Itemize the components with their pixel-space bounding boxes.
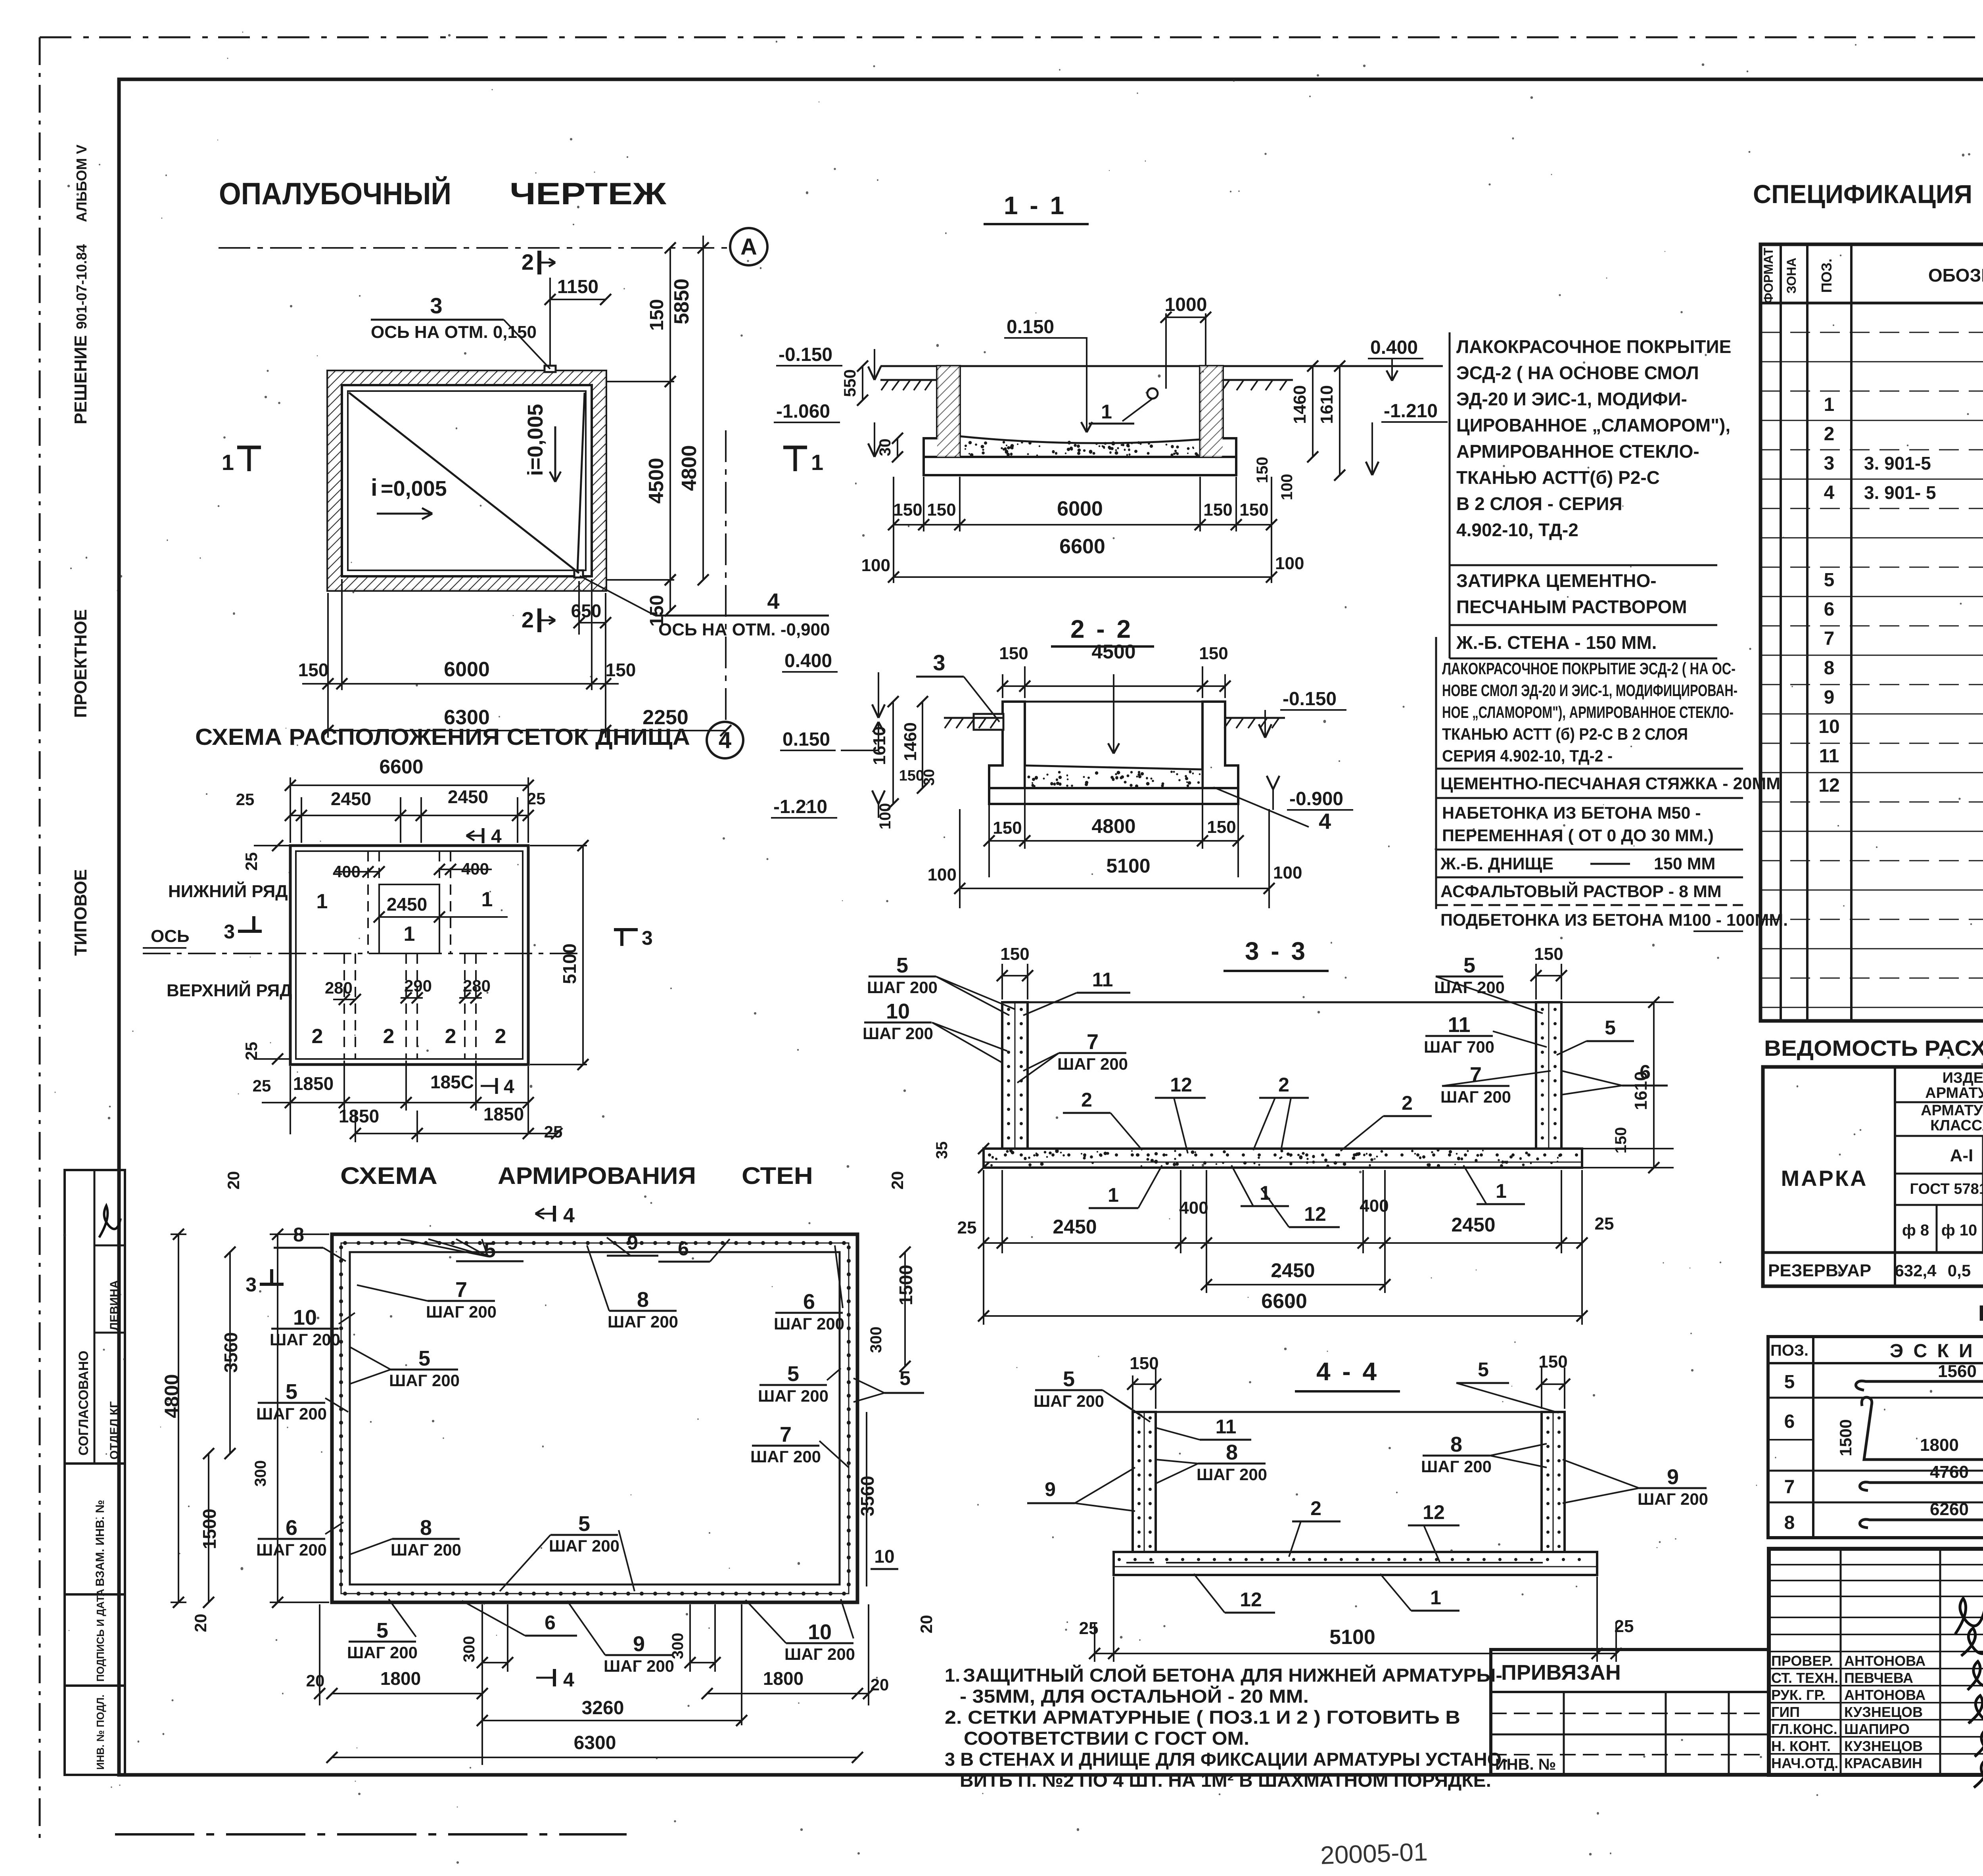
section 3-3 bottom dim 6600	[984, 1315, 1582, 1317]
svg-text:7: 7	[1824, 628, 1835, 649]
plan axis 4 vertical line	[725, 430, 727, 721]
svg-text:1000: 1000	[1165, 294, 1207, 315]
svg-text:6: 6	[803, 1290, 815, 1314]
svg-text:6260: 6260	[1930, 1500, 1969, 1519]
coating text block 1 rule 3	[1450, 658, 1717, 660]
svg-text:5: 5	[418, 1347, 430, 1370]
section 2-2 footing	[989, 788, 1238, 804]
svg-text:150: 150	[927, 500, 956, 520]
svg-text:АЛЬБОМ V: АЛЬБОМ V	[73, 145, 90, 222]
wall reinforcement dots left	[339, 1245, 343, 1586]
svg-text:2: 2	[1824, 424, 1835, 445]
svg-text:ОСЬ НА ОТМ. 0,150: ОСЬ НА ОТМ. 0,150	[371, 322, 537, 342]
plan section mark 2 top	[537, 251, 541, 274]
plan section mark 1T left	[237, 446, 261, 449]
svg-text:ШАГ 200: ШАГ 200	[774, 1314, 844, 1333]
svg-text:Э С К И З: Э С К И З	[1890, 1341, 1983, 1362]
svg-text:25: 25	[1615, 1617, 1634, 1636]
svg-text:300: 300	[252, 1460, 269, 1487]
svg-text:100: 100	[1278, 474, 1296, 501]
svg-text:150: 150	[1538, 1352, 1567, 1372]
svg-text:ПЕВЧЕВА: ПЕВЧЕВА	[1844, 1670, 1913, 1686]
plan right vertical dims 150 4500 150	[606, 381, 674, 382]
svg-text:4800: 4800	[678, 445, 701, 491]
armir left dims	[270, 1233, 329, 1235]
svg-text:ЗОНА: ЗОНА	[1784, 258, 1799, 294]
svg-text:КУЗНЕЦОВ: КУЗНЕЦОВ	[1844, 1704, 1923, 1720]
svg-text:1: 1	[222, 450, 234, 475]
wall reinforcement rect outer	[332, 1234, 857, 1602]
svg-text:ШАГ 200: ШАГ 200	[270, 1330, 340, 1349]
svg-text:ОСЬ НА ОТМ. -0,900: ОСЬ НА ОТМ. -0,900	[658, 620, 830, 639]
svg-text:КУЗНЕЦОВ: КУЗНЕЦОВ	[1844, 1738, 1923, 1754]
section 2-2 right wall	[1202, 702, 1238, 788]
sketch poz8	[1860, 1513, 1983, 1528]
section 1-1 wall hatch right	[1200, 366, 1223, 457]
svg-text:- 35ММ, ДЛЯ ОСТАЛЬНОЙ - 20: - 35ММ, ДЛЯ ОСТАЛЬНОЙ - 20 ММ.	[960, 1686, 1309, 1707]
svg-text:2450: 2450	[1451, 1214, 1495, 1236]
coating text block 2 rule4	[1436, 877, 1743, 879]
svg-text:650: 650	[571, 600, 602, 621]
svg-text:ШАГ 200: ШАГ 200	[1440, 1088, 1511, 1106]
details table left frame	[1768, 1337, 1983, 1538]
svg-text:9: 9	[1667, 1465, 1679, 1489]
svg-text:3: 3	[1824, 453, 1835, 474]
svg-text:АНТОНОВА: АНТОНОВА	[1844, 1653, 1925, 1669]
svg-text:ШАГ 200: ШАГ 200	[389, 1371, 460, 1390]
svg-text:0.150: 0.150	[1007, 317, 1054, 338]
svg-text:СТЕН: СТЕН	[742, 1162, 813, 1189]
section 2-2 left wall	[989, 702, 1025, 788]
svg-text:ОТДЕЛ КГ: ОТДЕЛ КГ	[108, 1401, 121, 1460]
svg-text:ШАГ 200: ШАГ 200	[863, 1024, 933, 1043]
svg-text:ПОЗ.: ПОЗ.	[1818, 259, 1835, 293]
svg-text:ШАГ 200: ШАГ 200	[784, 1645, 855, 1663]
svg-text:1: 1	[1101, 401, 1112, 423]
svg-text:0.400: 0.400	[784, 650, 832, 671]
svg-text:2: 2	[1278, 1074, 1289, 1096]
spec table row lines	[1761, 332, 1983, 333]
svg-text:ПОДПИСЬ И ДАТА: ПОДПИСЬ И ДАТА	[94, 1589, 106, 1682]
section 2-2 bottom dim 5100	[960, 888, 1269, 889]
plan dim 1150 top	[549, 278, 551, 365]
plan section mark 2 bottom	[537, 608, 541, 632]
svg-text:20: 20	[306, 1671, 325, 1690]
svg-text:ВЕРХНИЙ РЯД: ВЕРХНИЙ РЯД	[167, 980, 292, 1000]
svg-text:6600: 6600	[1261, 1290, 1307, 1313]
svg-text:12: 12	[1170, 1074, 1192, 1096]
svg-text:10: 10	[1818, 716, 1839, 737]
svg-text:2: 2	[445, 1025, 456, 1048]
svg-text:5100: 5100	[1106, 855, 1150, 877]
svg-text:6: 6	[678, 1237, 689, 1260]
svg-text:ШАГ 200: ШАГ 200	[1034, 1392, 1104, 1410]
svg-text:4800: 4800	[161, 1374, 183, 1418]
svg-text:9: 9	[1045, 1478, 1056, 1500]
svg-text:ПРОЕКТНОЕ: ПРОЕКТНОЕ	[71, 609, 90, 718]
svg-text:400: 400	[333, 862, 361, 881]
svg-text:4: 4	[1824, 482, 1835, 503]
svg-text:4: 4	[767, 589, 779, 614]
svg-text:300: 300	[669, 1633, 687, 1659]
section 1-1 wall hatch left	[937, 366, 960, 457]
sketch poz6	[1862, 1397, 1983, 1460]
plan section mark T1 right	[783, 446, 807, 449]
svg-text:25: 25	[236, 790, 255, 809]
svg-text:20: 20	[871, 1675, 889, 1694]
svg-text:100: 100	[1273, 863, 1302, 882]
svg-text:i=0,005: i=0,005	[524, 404, 547, 476]
svg-text:ГЛ.КОНС.: ГЛ.КОНС.	[1771, 1721, 1837, 1737]
section 1-1 right wall	[1200, 366, 1236, 457]
svg-text:ШАГ 200: ШАГ 200	[608, 1312, 678, 1331]
svg-text:СТ. ТЕХН.: СТ. ТЕХН.	[1771, 1670, 1838, 1686]
svg-text:5: 5	[578, 1512, 590, 1536]
svg-text:1610: 1610	[1631, 1071, 1651, 1110]
svg-text:ОБОЗНАЧЕНИЕ: ОБОЗНАЧЕНИЕ	[1928, 265, 1983, 286]
svg-text:5: 5	[376, 1619, 388, 1642]
svg-text:Ж.-Б. ДНИЩЕ: Ж.-Б. ДНИЩЕ	[1440, 854, 1553, 873]
mesh plan axis line	[143, 953, 579, 954]
spec table header row	[1761, 302, 1983, 305]
svg-text:-1.210: -1.210	[1384, 401, 1438, 422]
svg-text:-0.900: -0.900	[1289, 788, 1343, 809]
svg-text:ШАГ 200: ШАГ 200	[347, 1643, 418, 1662]
svg-text:1: 1	[1824, 394, 1835, 415]
svg-text:ПОЗ.: ПОЗ.	[1770, 1342, 1808, 1359]
svg-text:5100: 5100	[1329, 1626, 1375, 1649]
svg-text:6000: 6000	[1057, 497, 1103, 520]
left stamp lower cells	[65, 1464, 125, 1594]
section 1-1 dim 1460 1610	[1312, 366, 1314, 457]
coating text block 2 rule1	[1436, 768, 1743, 770]
svg-text:СЕРИЯ 4.902-10, ТД-2 -: СЕРИЯ 4.902-10, ТД-2 -	[1442, 746, 1613, 765]
section 1-1 bottom dims row2 6600	[894, 576, 1271, 578]
svg-text:25: 25	[544, 1122, 563, 1141]
svg-text:ТКАНЬЮ АСТТ(б) Р2-С: ТКАНЬЮ АСТТ(б) Р2-С	[1456, 467, 1660, 488]
svg-text:ОПАЛУБОЧНЫЙ: ОПАЛУБОЧНЫЙ	[219, 176, 451, 211]
svg-text:ЦИРОВАННОЕ „СЛАМОРОМ"),: ЦИРОВАННОЕ „СЛАМОРОМ"),	[1456, 415, 1730, 435]
svg-text:400: 400	[1360, 1196, 1388, 1216]
svg-text:4: 4	[1319, 809, 1331, 834]
svg-text:290: 290	[404, 976, 432, 995]
svg-text:ЛАКОКРАСОЧНОЕ ПОКРЫТИЕ: ЛАКОКРАСОЧНОЕ ПОКРЫТИЕ	[1456, 336, 1731, 357]
svg-text:1560: 1560	[1938, 1362, 1977, 1381]
plan diagonal slope line	[349, 393, 579, 573]
svg-text:АРМИРОВАНИЯ: АРМИРОВАНИЯ	[498, 1162, 696, 1189]
svg-text:11: 11	[1448, 1013, 1470, 1037]
svg-text:МАРКА: МАРКА	[1781, 1166, 1868, 1191]
svg-text:4: 4	[563, 1204, 575, 1227]
svg-text:150: 150	[298, 660, 329, 680]
wall reinforcement mid line	[341, 1243, 849, 1594]
svg-text:ШАГ 200: ШАГ 200	[750, 1447, 821, 1466]
svg-text:2: 2	[495, 1025, 506, 1048]
svg-text:1 - 1: 1 - 1	[1004, 191, 1066, 220]
svg-text:400: 400	[461, 859, 489, 878]
svg-text:100: 100	[928, 865, 957, 884]
svg-text:2450: 2450	[1271, 1259, 1315, 1281]
title block left columns	[1840, 1549, 1842, 1775]
svg-text:150 ММ: 150 ММ	[1654, 854, 1715, 873]
armir section mark 3 left	[260, 1283, 284, 1286]
svg-text:СООТВЕТСТВИИ С ГОСТ ОМ.: СООТВЕТСТВИИ С ГОСТ ОМ.	[964, 1728, 1249, 1749]
svg-text:ИЗДЕЛИЯ: ИЗДЕЛИЯ	[1943, 1070, 1983, 1086]
svg-text:ПЕРЕМЕННАЯ ( ОТ 0 ДО 30: ПЕРЕМЕННАЯ ( ОТ 0 ДО 30 ММ.)	[1442, 826, 1714, 845]
svg-text:25: 25	[242, 1042, 261, 1061]
section 4-4 right wall	[1542, 1412, 1565, 1552]
svg-text:150: 150	[1199, 644, 1228, 663]
svg-text:25: 25	[242, 852, 261, 871]
svg-text:1800: 1800	[763, 1668, 804, 1689]
section 3-3 bottom dim 2450 center	[1206, 1284, 1385, 1285]
section 3-3 right dims 1610 150	[1653, 1002, 1655, 1168]
svg-text:ИНВ. № ПОДЛ.: ИНВ. № ПОДЛ.	[94, 1695, 106, 1770]
svg-text:4500: 4500	[645, 458, 668, 504]
plan top wall gland notch	[545, 366, 556, 372]
svg-text:3. 901-5: 3. 901-5	[1864, 453, 1931, 474]
svg-text:ЦЕМЕНТНО-ПЕСЧАНАЯ СТЯЖКА -: ЦЕМЕНТНО-ПЕСЧАНАЯ СТЯЖКА - 20ММ	[1440, 774, 1780, 793]
svg-text:2: 2	[1081, 1089, 1092, 1111]
svg-text:СПЕЦИФИКАЦИЯ: СПЕЦИФИКАЦИЯ	[1753, 179, 1972, 209]
svg-text:ЛЕВИНА: ЛЕВИНА	[108, 1280, 121, 1331]
svg-text:ГОСТ 5781- 82: ГОСТ 5781- 82	[1910, 1181, 1983, 1197]
svg-text:150: 150	[1130, 1354, 1158, 1373]
steel table frame	[1763, 1067, 1983, 1286]
svg-text:ШАГ 200: ШАГ 200	[1057, 1055, 1128, 1073]
svg-text:150: 150	[606, 660, 636, 680]
svg-text:3 - 3: 3 - 3	[1245, 937, 1308, 965]
svg-text:11: 11	[1216, 1416, 1237, 1438]
svg-text:А-I: А-I	[1950, 1146, 1973, 1165]
svg-text:25: 25	[253, 1076, 271, 1095]
svg-text:150: 150	[646, 595, 667, 627]
title block upper row lines	[1769, 1564, 1983, 1565]
coating text block 1 border	[1449, 332, 1451, 658]
mesh dim 2450 middle	[379, 916, 508, 918]
svg-text:НОВЕ СМОЛ ЭД-20 И ЭИС-1, МОДИ: НОВЕ СМОЛ ЭД-20 И ЭИС-1, МОДИФИЦИРОВАН-	[1442, 681, 1738, 700]
svg-text:25: 25	[527, 789, 546, 808]
svg-text:-0.150: -0.150	[1283, 689, 1337, 710]
svg-text:400: 400	[1179, 1198, 1208, 1218]
svg-text:ГИП: ГИП	[1771, 1704, 1800, 1720]
svg-text:4.902-10, ТД-2: 4.902-10, ТД-2	[1456, 520, 1578, 540]
section 1-1 dim 1000	[1165, 313, 1167, 389]
svg-text:25: 25	[1595, 1214, 1614, 1233]
svg-text:1: 1	[811, 450, 823, 475]
plan second slope line	[577, 393, 585, 572]
sheet outer edge top	[40, 36, 1983, 38]
svg-text:4: 4	[504, 1076, 514, 1097]
svg-text:8: 8	[1226, 1441, 1238, 1464]
mesh dims 400 top	[335, 871, 379, 873]
svg-text:1610: 1610	[1317, 385, 1337, 424]
svg-text:4: 4	[563, 1669, 574, 1691]
svg-text:РУК. ГР.: РУК. ГР.	[1771, 1687, 1826, 1703]
plan axis A line	[219, 247, 730, 249]
section 4-4 top dims 150	[1132, 1375, 1133, 1409]
svg-text:ШАГ 200: ШАГ 200	[549, 1536, 619, 1555]
section 3-3 bottom dims row 25 2450 2450 25	[983, 1170, 984, 1325]
svg-text:3. 901- 5: 3. 901- 5	[1864, 482, 1936, 503]
svg-text:7: 7	[455, 1278, 467, 1302]
svg-text:5: 5	[1063, 1367, 1075, 1391]
svg-text:ф 8: ф 8	[1902, 1222, 1929, 1239]
svg-text:7: 7	[780, 1423, 792, 1446]
svg-text:280: 280	[463, 976, 491, 995]
svg-text:10: 10	[293, 1306, 317, 1329]
wall reinforcement rect inner	[350, 1252, 840, 1584]
svg-text:2450: 2450	[387, 894, 427, 915]
svg-text:20: 20	[191, 1614, 210, 1632]
svg-text:150: 150	[1239, 500, 1268, 520]
section 1-1 ground left	[880, 379, 937, 381]
armir dim 300 right	[689, 1604, 691, 1672]
svg-text:5100: 5100	[559, 944, 580, 984]
svg-text:300: 300	[867, 1327, 885, 1353]
svg-text:1800: 1800	[380, 1668, 421, 1689]
svg-text:СОГЛАСОВАНО: СОГЛАСОВАНО	[76, 1350, 91, 1456]
section 4-4 top edge	[1156, 1411, 1542, 1413]
section 1-1 footing	[924, 457, 1236, 475]
svg-text:1: 1	[1496, 1180, 1507, 1202]
svg-text:ШАГ 200: ШАГ 200	[1197, 1465, 1267, 1484]
coating text block 2 rule3	[1436, 849, 1743, 851]
section 3-3 floor slab	[984, 1149, 1582, 1168]
armir bottom dims	[319, 1604, 320, 1705]
sheet outer edge bottom partial	[115, 1833, 627, 1836]
svg-text:6600: 6600	[1059, 535, 1105, 558]
svg-text:150: 150	[646, 299, 667, 331]
svg-text:2: 2	[312, 1025, 323, 1048]
svg-text:30: 30	[876, 439, 894, 457]
title block name rows	[1769, 1651, 1983, 1652]
plan right vertical dims 5850 4800	[702, 236, 704, 248]
svg-text:СХЕМА РАСПОЛОЖЕНИЯ СЕТОК Д: СХЕМА РАСПОЛОЖЕНИЯ СЕТОК ДНИЩА	[195, 724, 690, 750]
svg-text:ОСЬ: ОСЬ	[151, 926, 190, 946]
svg-text:150: 150	[999, 644, 1028, 663]
svg-text:3 В СТЕНАХ И ДНИЩЕ ДЛЯ: 3 В СТЕНАХ И ДНИЩЕ ДЛЯ ФИКСАЦИИ АРМАТУРЫ…	[945, 1749, 1508, 1770]
wall reinforcement dots top	[343, 1241, 846, 1245]
mesh section mark 3 right	[614, 928, 638, 931]
svg-text:i: i	[371, 474, 378, 501]
svg-text:5: 5	[1824, 570, 1835, 591]
section 1-1 dim 30	[897, 438, 898, 457]
svg-text:2450: 2450	[448, 786, 488, 807]
svg-text:2450: 2450	[1053, 1216, 1097, 1238]
svg-text:6: 6	[545, 1611, 556, 1634]
svg-text:1: 1	[316, 890, 328, 913]
svg-text:=0,005: =0,005	[381, 477, 447, 501]
svg-text:ВЕДОМОСТЬ ДЕТАЛЕЙ: ВЕДОМОСТЬ ДЕТАЛЕЙ	[1978, 1301, 1983, 1325]
svg-text:3: 3	[933, 650, 945, 675]
svg-text:1460: 1460	[901, 722, 920, 761]
svg-text:3: 3	[224, 921, 235, 943]
svg-text:ПОДБЕТОНКА ИЗ БЕТОНА М10: ПОДБЕТОНКА ИЗ БЕТОНА М100 - 100ММ.	[1440, 911, 1788, 930]
svg-text:-0.150: -0.150	[779, 344, 832, 365]
svg-text:150: 150	[1254, 457, 1271, 483]
mesh top dims 25 2450 2450 25	[301, 797, 302, 843]
svg-text:9: 9	[1824, 687, 1835, 708]
section mark 4 below title	[553, 1206, 556, 1222]
svg-text:ТКАНЬЮ АСТТ (б) Р2-С В 2: ТКАНЬЮ АСТТ (б) Р2-С В 2 СЛОЯ	[1442, 725, 1688, 743]
svg-text:1.: 1.	[945, 1665, 960, 1686]
section 4-4 bottom dim 5100	[1113, 1577, 1114, 1662]
svg-text:ЗАТИРКА ЦЕМЕНТНО-: ЗАТИРКА ЦЕМЕНТНО-	[1456, 570, 1657, 591]
svg-text:7: 7	[1087, 1030, 1099, 1054]
mesh plan lower-row panel dividers	[343, 953, 345, 1059]
svg-text:ШАГ 200: ШАГ 200	[604, 1657, 674, 1675]
svg-text:6: 6	[286, 1516, 297, 1540]
svg-text:Н. КОНТ.: Н. КОНТ.	[1771, 1738, 1831, 1754]
armir bottom dim 6300	[332, 1757, 857, 1758]
mesh bottom dims row2	[355, 1111, 356, 1142]
title block signatures scribble	[1955, 1598, 1983, 1788]
svg-text:АРМИРОВАННОЕ СТЕКЛО-: АРМИРОВАННОЕ СТЕКЛО-	[1456, 441, 1699, 462]
svg-text:185С: 185С	[430, 1072, 474, 1092]
svg-text:25: 25	[957, 1218, 977, 1237]
mesh bottom dims row1	[290, 1066, 291, 1134]
svg-text:5850: 5850	[670, 278, 693, 324]
svg-text:150: 150	[1207, 817, 1236, 837]
section 2-2 leader 4	[1214, 787, 1309, 827]
left stamp signature	[99, 1206, 121, 1237]
svg-text:4760: 4760	[1930, 1462, 1969, 1482]
svg-text:150: 150	[1534, 944, 1563, 964]
svg-text:2450: 2450	[331, 788, 371, 809]
svg-text:5: 5	[1463, 953, 1475, 977]
svg-text:7: 7	[1470, 1063, 1482, 1087]
plan innermost line	[348, 391, 586, 570]
svg-text:ЭСД-2 ( НА ОСНОВЕ СМОЛ: ЭСД-2 ( НА ОСНОВЕ СМОЛ	[1456, 363, 1699, 383]
svg-text:100: 100	[876, 803, 894, 830]
svg-text:632,4: 632,4	[1895, 1261, 1937, 1280]
svg-text:6000: 6000	[444, 658, 490, 681]
svg-text:0.150: 0.150	[782, 729, 830, 750]
svg-text:8: 8	[1784, 1512, 1795, 1533]
svg-text:6600: 6600	[379, 756, 423, 778]
svg-text:ШАГ 200: ШАГ 200	[1421, 1457, 1492, 1476]
section 3-3 right wall	[1536, 1002, 1561, 1168]
svg-text:150: 150	[899, 767, 924, 784]
sheet outer edge left	[39, 37, 41, 1842]
svg-text:150: 150	[1000, 944, 1029, 964]
mesh top dim 6600	[290, 777, 291, 843]
section 1-1 bottom dims row1	[923, 477, 924, 531]
axis circle A	[730, 228, 767, 265]
svg-text:12: 12	[1304, 1203, 1326, 1225]
section 2-2 top dims 150 4500 150	[1002, 674, 1003, 698]
svg-text:2: 2	[1310, 1497, 1321, 1519]
section 1-1 leader 1 with circle	[1147, 388, 1158, 399]
svg-text:9: 9	[633, 1632, 645, 1656]
svg-text:2 - 2: 2 - 2	[1070, 615, 1133, 643]
svg-text:901-07-10.84: 901-07-10.84	[73, 244, 90, 329]
svg-text:-1.210: -1.210	[773, 796, 827, 817]
svg-text:150: 150	[893, 500, 922, 520]
plan bottom dims 150 6000 150	[327, 593, 329, 738]
mesh section mark 4 top	[482, 828, 485, 843]
sketch poz5	[1856, 1361, 1983, 1390]
svg-text:8: 8	[420, 1516, 432, 1540]
svg-text:150: 150	[1203, 500, 1232, 520]
svg-text:20005-01: 20005-01	[1320, 1838, 1428, 1870]
svg-text:АНТОНОВА: АНТОНОВА	[1844, 1687, 1925, 1703]
svg-text:ПЕСЧАНЫМ РАСТВОРОМ: ПЕСЧАНЫМ РАСТВОРОМ	[1456, 597, 1687, 617]
svg-text:ШАГ 200: ШАГ 200	[758, 1387, 828, 1405]
svg-text:ЛАКОКРАСОЧНОЕ ПОКРЫТИЕ ЭСД-2: ЛАКОКРАСОЧНОЕ ПОКРЫТИЕ ЭСД-2 ( НА ОС-	[1442, 659, 1736, 678]
svg-text:ЭД-20 И ЭИС-1, МОДИФИ-: ЭД-20 И ЭИС-1, МОДИФИ-	[1456, 389, 1687, 409]
